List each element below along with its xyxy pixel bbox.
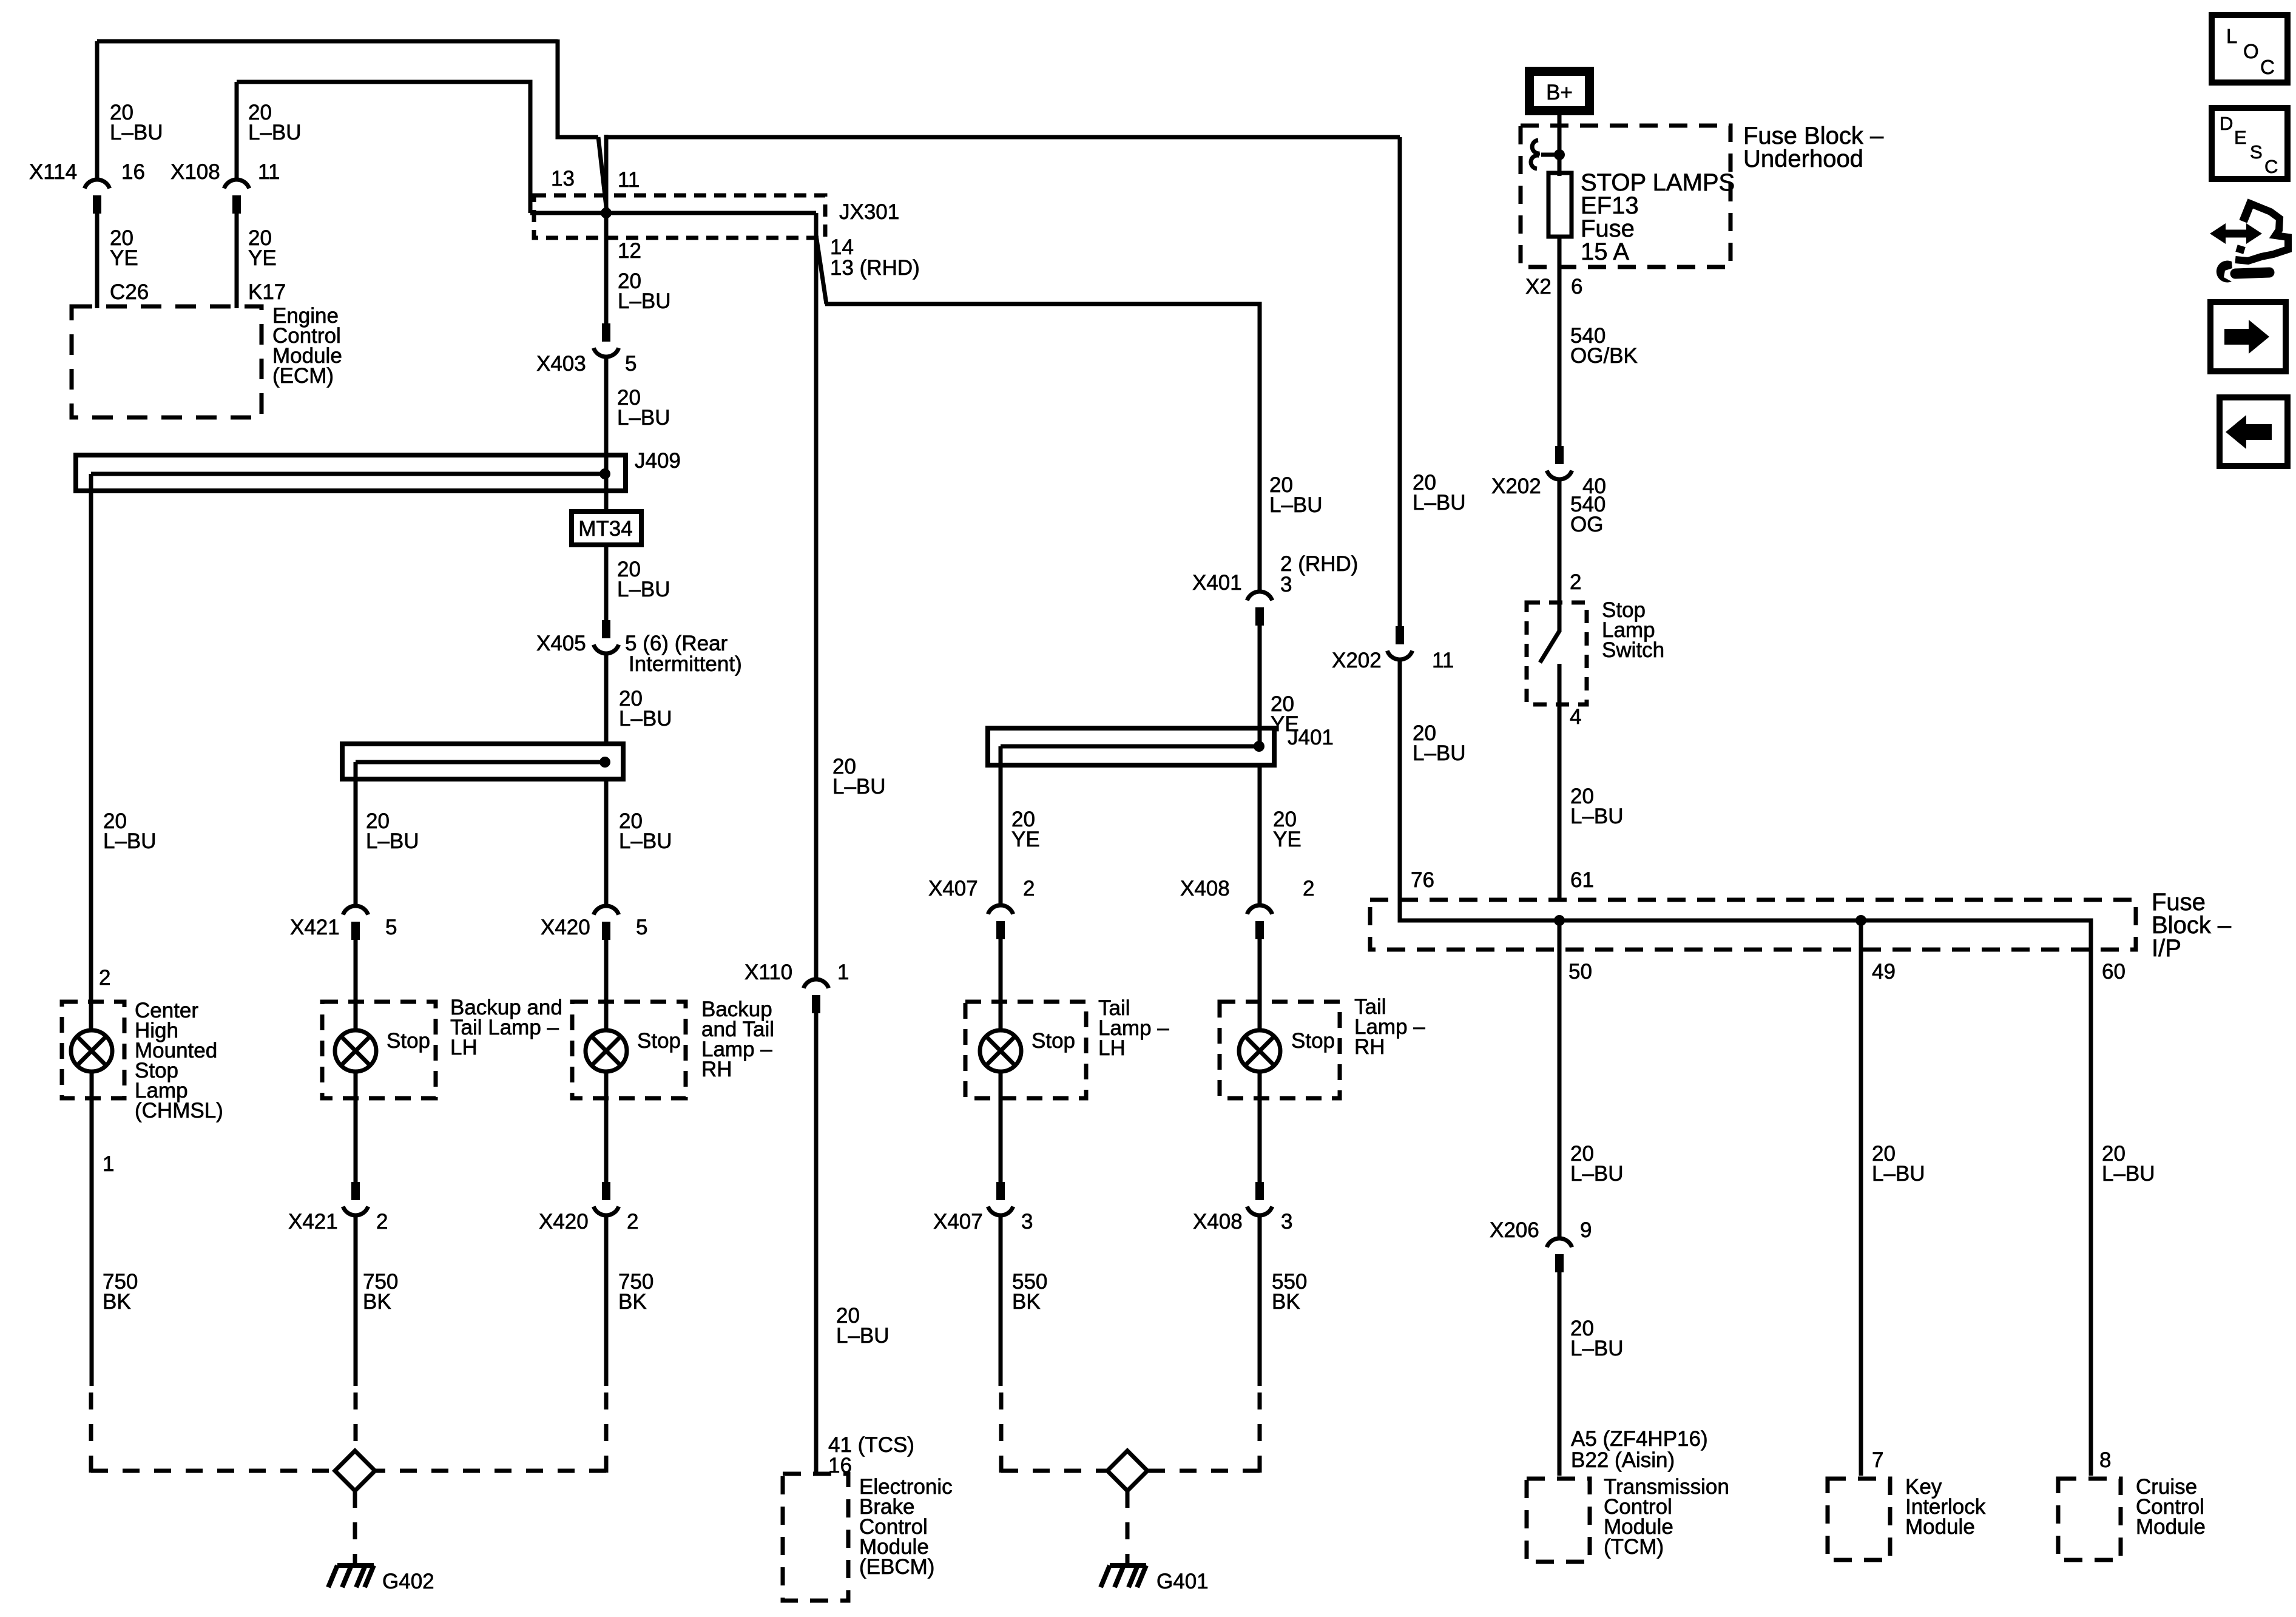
icon LOC box [2212, 15, 2288, 83]
label 20 L-BU X114 [110, 101, 163, 144]
wire X202-11 to fuse block IP pin 76 (20 L-BU) [1400, 660, 1559, 920]
svg-text:BK: BK [1272, 1290, 1300, 1314]
splice pack J409 (bus bar) [76, 455, 626, 493]
connector X206 pin 9 [1547, 1238, 1572, 1272]
label 20 YE x401 [1271, 692, 1299, 736]
wire X407-3 to G401 (550 BK) [1001, 1216, 1107, 1473]
svg-text:X202: X202 [1491, 474, 1541, 498]
label 20 L-BU below MT34 [617, 558, 670, 601]
svg-text:C26: C26 [110, 280, 149, 304]
module Key Interlock Module [1828, 1479, 1890, 1560]
wire JX301 pin14 to X401 (13 RHD) [816, 235, 1260, 593]
svg-text:D: D [2220, 113, 2233, 134]
svg-text:L–BU: L–BU [1570, 805, 1624, 828]
wire diamond to G402 ground [353, 1491, 357, 1563]
label pin 1 CHMSL [103, 1152, 114, 1176]
label X108 11 [171, 160, 280, 184]
svg-text:Stop: Stop [1291, 1029, 1335, 1053]
connector X405 pin 5 [593, 620, 618, 653]
wire fuse block to Cruise (20 L-BU) [2089, 950, 2093, 1476]
lamp Backup and Tail Lamp LH (Stop) [322, 1002, 436, 1098]
label X110 1 [745, 960, 849, 984]
wire MT34 to X405 (20 L-BU) [604, 545, 609, 621]
label 540 OG [1570, 493, 1606, 536]
connector X108 pin 11 [224, 82, 249, 214]
svg-text:(TCM): (TCM) [1604, 1535, 1664, 1559]
svg-text:L–BU: L–BU [619, 707, 672, 731]
svg-text:RH: RH [701, 1058, 732, 1081]
svg-text:13 (RHD): 13 (RHD) [830, 256, 920, 280]
wire X202-11 column (20 L-BU) [1398, 137, 1402, 627]
svg-text:L–BU: L–BU [1413, 491, 1466, 515]
svg-text:BK: BK [618, 1290, 647, 1314]
svg-text:7: 7 [1872, 1448, 1883, 1472]
label G401 [1156, 1570, 1209, 1593]
svg-text:2: 2 [1023, 877, 1035, 900]
wire JX301 pin 11 to X202 pin 11 (20 L-BU) [606, 135, 1400, 137]
connector JX301 (dashed box) [534, 195, 825, 238]
ground G402 [328, 1565, 374, 1587]
label 20 L-BU x401 col [1269, 473, 1323, 517]
label J409 [635, 449, 681, 473]
svg-text:L–BU: L–BU [618, 289, 671, 313]
svg-text:11: 11 [618, 168, 640, 192]
svg-text:15 A: 15 A [1581, 238, 1629, 265]
fuse block I/P (dashed box) [1370, 900, 2136, 950]
svg-text:YE: YE [110, 246, 138, 270]
wire X403 to J409 (20 L-BU) [604, 357, 609, 457]
svg-text:61: 61 [1570, 868, 1594, 892]
label Stop LH backup [387, 1029, 430, 1053]
splice diamond G401 [1107, 1451, 1147, 1491]
svg-text:6: 6 [1571, 275, 1582, 299]
label J401 [1288, 726, 1334, 749]
svg-text:X407: X407 [928, 877, 978, 900]
label pin 76 [1411, 868, 1434, 892]
svg-text:MT34: MT34 [578, 517, 632, 541]
connector X202 pin 11 [1387, 626, 1412, 660]
svg-text:JX301: JX301 [839, 200, 899, 224]
label Fuse Block - I/P [2152, 889, 2232, 962]
svg-text:X420: X420 [539, 1210, 589, 1234]
label 2 (RHD) 3 [1280, 552, 1358, 596]
svg-text:L–BU: L–BU [1570, 1337, 1624, 1360]
svg-text:76: 76 [1411, 868, 1434, 892]
wire ECM C26 pin16 to JX301 pin 13 (20 L-BU) [97, 39, 607, 212]
svg-text:X403: X403 [536, 352, 586, 376]
switch Stop Lamp Switch (dashed box) [1527, 603, 1587, 704]
label pin 2 switch [1570, 570, 1581, 594]
svg-text:X202: X202 [1332, 649, 1382, 672]
wire diamond to G401 ground [1126, 1491, 1130, 1563]
svg-text:L–BU: L–BU [1269, 493, 1323, 517]
label Stop Lamp Switch [1602, 598, 1664, 662]
svg-text:A5 (ZF4HP16): A5 (ZF4HP16) [1571, 1427, 1708, 1451]
connector X421 pin 5 [343, 906, 368, 940]
svg-text:L–BU: L–BU [1413, 741, 1466, 765]
wire X408-2 to tail lamp RH [1258, 939, 1262, 1031]
label X408 2 [1180, 877, 1314, 900]
module Electronic Brake Control Module (EBCM) [783, 1474, 848, 1601]
label X408 3 [1193, 1210, 1292, 1234]
svg-text:Stop: Stop [387, 1029, 430, 1053]
wire tail LH lamp to X407-3 [999, 1072, 1003, 1183]
label X206 9 [1490, 1218, 1592, 1242]
module Transmission Control Module (TCM) [1527, 1479, 1590, 1562]
label pin 14 / 13 (RHD) [830, 235, 920, 280]
node fuse feed dot [1554, 149, 1565, 160]
svg-text:L–BU: L–BU [110, 121, 163, 144]
icon back arrow box [2220, 397, 2288, 466]
label X421 5 [290, 916, 397, 939]
label 20 L-BU x420 col [619, 809, 672, 853]
svg-text:Module: Module [1905, 1515, 1975, 1539]
svg-text:X408: X408 [1193, 1210, 1243, 1234]
label X407 3 [933, 1210, 1033, 1234]
svg-text:50: 50 [1568, 960, 1592, 984]
label 20 L-BU x421 col [366, 809, 419, 853]
wire bus to X420 pin5 (20 L-BU) [604, 779, 609, 907]
svg-text:BK: BK [1012, 1290, 1041, 1314]
wire X108 to ECM K17 (20 YE) [235, 214, 239, 308]
label 20 L-BU ebcm lower [836, 1304, 890, 1348]
svg-text:X108: X108 [171, 160, 220, 184]
svg-text:(EBCM): (EBCM) [859, 1555, 934, 1579]
label 20 L-BU cruise col [2102, 1142, 2155, 1186]
svg-text:3: 3 [1281, 1210, 1292, 1234]
svg-text:B+: B+ [1546, 81, 1573, 104]
label Fuse Block - Underhood [1743, 123, 1884, 172]
wire JX301 pin 12 down (20 L-BU) [604, 137, 609, 325]
node bus junction dot [599, 757, 610, 768]
node J409 junction dot [599, 468, 610, 479]
node splice dot JX301 [601, 208, 612, 218]
wire X206 to TCM (20 L-BU) [1558, 1272, 1562, 1476]
label X407 2 [928, 877, 1035, 900]
wire fuse block to X206 (20 L-BU) [1558, 920, 1562, 1240]
svg-text:2: 2 [627, 1210, 638, 1234]
svg-text:(ECM): (ECM) [272, 364, 334, 388]
wire backup RH lamp to X420-2 [604, 1072, 609, 1183]
wire CHMSL to ground (750 BK) [91, 1072, 335, 1473]
svg-text:16: 16 [121, 160, 145, 184]
splice pack J401 (bus bar) [988, 728, 1274, 767]
label Tail Lamp - RH [1354, 995, 1425, 1059]
label 20 L-BU X108 [248, 101, 302, 144]
wire fuse to X202-40 (540 OG/BK) [1558, 237, 1562, 447]
label X2 6 [1525, 275, 1582, 299]
svg-text:S: S [2250, 141, 2263, 163]
svg-text:G401: G401 [1156, 1570, 1209, 1593]
label 550 BK x407 [1012, 1270, 1047, 1314]
connector X421 pin 2 [343, 1182, 368, 1215]
wire X420-2 to G402 (750 BK) [376, 1216, 606, 1473]
label 540 OG/BK [1570, 324, 1638, 368]
wire X408-3 to G401 (550 BK) [1148, 1216, 1260, 1473]
label 750 BK x420 [618, 1270, 653, 1314]
lamp Tail Lamp LH (Stop) [965, 1002, 1086, 1098]
svg-text:L–BU: L–BU [2102, 1162, 2155, 1186]
wire J401 to X407-2 (20 YE) [999, 765, 1003, 906]
svg-text:2: 2 [99, 966, 110, 990]
label X202 40 [1491, 474, 1606, 498]
label pin 50 [1568, 960, 1592, 984]
label 750 BK chmsl [103, 1270, 138, 1314]
label A5 (ZF4HP16) B22 (Aisin) [1571, 1427, 1708, 1472]
svg-text:L–BU: L–BU [617, 406, 670, 430]
label 20 L-BU above J409 [617, 386, 670, 430]
svg-text:OG: OG [1570, 513, 1603, 536]
connector X408 pin 2 [1247, 905, 1272, 939]
svg-text:4: 4 [1570, 705, 1581, 729]
label Stop RH tail [1291, 1029, 1335, 1053]
svg-text:Stop: Stop [1032, 1029, 1075, 1053]
icon forward arrow box [2210, 302, 2286, 371]
svg-text:C: C [2260, 56, 2275, 78]
svg-text:X206: X206 [1490, 1218, 1539, 1242]
label CHMSL [135, 999, 223, 1122]
wire X421-5 to backup lamp LH [354, 940, 358, 1031]
wire X202-40 to stop lamp switch (540 OG) [1558, 480, 1562, 632]
icon DESC box [2212, 108, 2288, 179]
svg-text:E: E [2234, 127, 2247, 148]
svg-text:X114: X114 [29, 160, 77, 184]
connector X401 pin 3 [1247, 592, 1272, 626]
wire ECM K17 pin11 to JX301 (20 L-BU) [237, 82, 530, 213]
label 20 L-BU below X405 [619, 687, 672, 731]
terminal clip symbol [1531, 140, 1559, 169]
wire J409 to MT34 [604, 455, 609, 513]
label 20 L-BU chmsl col [103, 809, 157, 853]
label X202 11 [1332, 649, 1454, 672]
fuse block underhood (dashed box) [1521, 126, 1730, 267]
label Stop LH tail [1032, 1029, 1075, 1053]
svg-text:L–BU: L–BU [619, 829, 672, 853]
svg-text:L–BU: L–BU [617, 578, 670, 601]
label pin 12 [618, 239, 641, 263]
module Cruise Control Module [2058, 1479, 2121, 1560]
label pin 60 [2102, 960, 2125, 984]
svg-text:J401: J401 [1288, 726, 1334, 749]
svg-text:L–BU: L–BU [103, 829, 157, 853]
wire X420-5 to backup lamp RH [604, 940, 609, 1031]
svg-text:60: 60 [2102, 960, 2125, 984]
svg-text:12: 12 [618, 239, 641, 263]
wire X114 to ECM C26 (20 YE) [95, 214, 100, 308]
label Backup and Tail Lamp - RH [701, 998, 774, 1081]
label pin 13 [551, 167, 575, 191]
label 20 L-BU below JX301 [618, 269, 671, 313]
icon adjust/hand with wrench [2210, 200, 2288, 283]
svg-text:OG/BK: OG/BK [1570, 344, 1638, 368]
svg-text:X405: X405 [536, 632, 586, 655]
label 20 L-BU key col [1872, 1142, 1925, 1186]
component MT34 (splice) [572, 511, 641, 545]
svg-text:X421: X421 [290, 916, 340, 939]
svg-text:YE: YE [1273, 828, 1302, 851]
svg-text:K17: K17 [248, 280, 286, 304]
lamp Backup and Tail Lamp RH (Stop) [572, 1002, 686, 1098]
svg-text:9: 9 [1580, 1218, 1592, 1242]
label Key Interlock Module [1905, 1475, 1986, 1539]
label pin 61 [1570, 868, 1594, 892]
label 20 YE X108 [248, 226, 277, 270]
label X421 2 [288, 1210, 388, 1234]
svg-text:C: C [2264, 156, 2278, 177]
svg-text:X420: X420 [541, 916, 590, 939]
lamp Center High Mounted Stop Lamp (CHMSL) [62, 1002, 124, 1098]
label Cruise Control Module [2136, 1475, 2206, 1539]
connector X202 pin 40 [1547, 446, 1572, 479]
label K17 [248, 280, 286, 304]
label pin 2 CHMSL [99, 966, 110, 990]
svg-text:LH: LH [1098, 1036, 1126, 1060]
svg-text:1: 1 [837, 960, 849, 984]
node fuse block dot pin50 col [1554, 915, 1565, 926]
svg-text:Module: Module [2136, 1515, 2206, 1539]
connector X114 pin 16 [84, 41, 109, 214]
wire fuse block to Key Interlock (20 L-BU) [1859, 920, 1863, 1476]
svg-text:L–BU: L–BU [366, 829, 419, 853]
label pin 11 [618, 168, 640, 192]
wire tail RH lamp to X408-3 [1258, 1072, 1262, 1183]
svg-text:L: L [2226, 25, 2237, 47]
svg-text:Switch: Switch [1602, 638, 1664, 662]
label X114 16 [29, 160, 145, 184]
svg-text:2: 2 [1303, 877, 1314, 900]
wire bus to X421 pin5 (20 L-BU) [354, 779, 358, 907]
connector X407 pin 2 [988, 905, 1013, 939]
svg-text:B22 (Aisin): B22 (Aisin) [1571, 1448, 1675, 1472]
wire X421-2 to G402 (750 BK) [354, 1216, 358, 1451]
svg-text:2: 2 [1570, 570, 1581, 594]
label C26 [110, 280, 149, 304]
label 41 (TCS) 16 [828, 1433, 914, 1477]
svg-text:5: 5 [636, 916, 647, 939]
label EBCM [859, 1475, 953, 1579]
svg-text:L–BU: L–BU [836, 1324, 890, 1348]
wire J409 to CHMSL (20 L-BU) [89, 491, 93, 1031]
svg-text:J409: J409 [635, 449, 681, 473]
svg-text:1: 1 [103, 1152, 114, 1176]
label 750 BK x421 [363, 1270, 398, 1314]
wire switch lower contact [1558, 664, 1562, 901]
svg-text:3: 3 [1280, 573, 1292, 596]
wire JX301 to X110 (20 L-BU) [814, 213, 819, 981]
svg-text:X407: X407 [933, 1210, 983, 1234]
svg-text:YE: YE [248, 246, 277, 270]
label STOP LAMPS EF13 Fuse 15 A [1581, 169, 1735, 265]
splice pack (backup lamps bus) [342, 744, 623, 781]
label 20 YE x408 [1273, 808, 1302, 851]
lamp Tail Lamp RH (Stop) [1220, 1002, 1340, 1098]
svg-text:BK: BK [103, 1290, 131, 1314]
svg-text:L–BU: L–BU [1570, 1162, 1624, 1186]
wire X405 to splice bus (20 L-BU) [604, 654, 609, 745]
connector X420 pin 2 [593, 1182, 618, 1215]
svg-text:L–BU: L–BU [832, 775, 886, 798]
svg-text:13: 13 [551, 167, 575, 191]
svg-text:BK: BK [363, 1290, 391, 1314]
node J401 junction dot [1254, 741, 1264, 752]
ground G401 [1101, 1565, 1146, 1587]
label X405 5 (6) (Rear Intermittent) [536, 632, 742, 676]
label TCM [1604, 1475, 1729, 1559]
svg-text:5: 5 [625, 352, 636, 376]
wire X401 to J401 (20 YE) [1258, 626, 1262, 745]
svg-text:LH: LH [450, 1036, 478, 1059]
label X403 5 [536, 352, 636, 376]
svg-text:Stop: Stop [637, 1029, 681, 1053]
label 20 YE X114 [110, 226, 138, 270]
svg-text:3: 3 [1021, 1210, 1033, 1234]
label 20 L-BU x202 upper [1413, 471, 1466, 515]
power B+ terminal [1530, 72, 1590, 111]
svg-text:X110: X110 [745, 960, 792, 984]
wire bus inside fuse block IP [1559, 920, 2091, 953]
svg-text:L–BU: L–BU [1872, 1162, 1925, 1186]
label G402 [382, 1570, 434, 1593]
svg-text:11: 11 [1432, 649, 1454, 672]
svg-text:I/P: I/P [2152, 935, 2181, 962]
label 20 YE x407 [1011, 808, 1040, 851]
wire B+ to fuse block [1558, 115, 1562, 176]
fuse EF13 STOP LAMPS 15A [1548, 173, 1572, 237]
connector X408 pin 3 [1247, 1182, 1272, 1215]
svg-text:(CHMSL): (CHMSL) [135, 1099, 223, 1122]
svg-text:8: 8 [2099, 1448, 2111, 1472]
connector X403 pin 5 [593, 323, 618, 357]
label 20 L-BU tcm col [1570, 1142, 1624, 1186]
svg-text:X401: X401 [1192, 571, 1242, 595]
label Tail Lamp - LH [1098, 996, 1169, 1060]
label pin 8 [2099, 1448, 2111, 1472]
wire J401 to X408-2 (20 YE) [1258, 765, 1262, 906]
label MT34 [578, 517, 632, 541]
svg-text:Intermittent): Intermittent) [629, 652, 742, 676]
svg-text:O: O [2243, 40, 2259, 62]
svg-text:RH: RH [1354, 1035, 1385, 1059]
label 550 BK x408 [1272, 1270, 1307, 1314]
label 20 L-BU below X206 [1570, 1317, 1624, 1360]
label pin 7 [1872, 1448, 1883, 1472]
label Backup and Tail Lamp - LH [450, 996, 562, 1059]
svg-text:X421: X421 [288, 1210, 338, 1234]
label 20 L-BU switch col [1570, 785, 1624, 828]
label X401 [1192, 571, 1242, 595]
wire X407-2 to tail lamp LH [999, 939, 1003, 1031]
label 20 L-BU ebcm upper [832, 755, 886, 798]
label X420 2 [539, 1210, 638, 1234]
svg-text:L–BU: L–BU [248, 121, 302, 144]
svg-text:Underhood: Underhood [1743, 146, 1863, 172]
wire backup LH lamp to X421-2 [354, 1072, 358, 1183]
label ECM [272, 304, 342, 388]
svg-text:YE: YE [1011, 828, 1040, 851]
label JX301 [839, 200, 899, 224]
connector X407 pin 3 [988, 1182, 1013, 1215]
connector X110 pin 1 [803, 979, 828, 1013]
switch blade [1540, 631, 1559, 663]
wire X110 to EBCM (20 L-BU) [814, 1013, 819, 1476]
svg-text:11: 11 [258, 160, 280, 184]
label pin 49 [1872, 960, 1896, 984]
label pin 4 switch [1570, 705, 1581, 729]
connector X420 pin 5 [593, 906, 618, 940]
svg-text:X408: X408 [1180, 877, 1230, 900]
module Engine Control Module (ECM) [72, 306, 262, 417]
label X420 5 [541, 916, 647, 939]
